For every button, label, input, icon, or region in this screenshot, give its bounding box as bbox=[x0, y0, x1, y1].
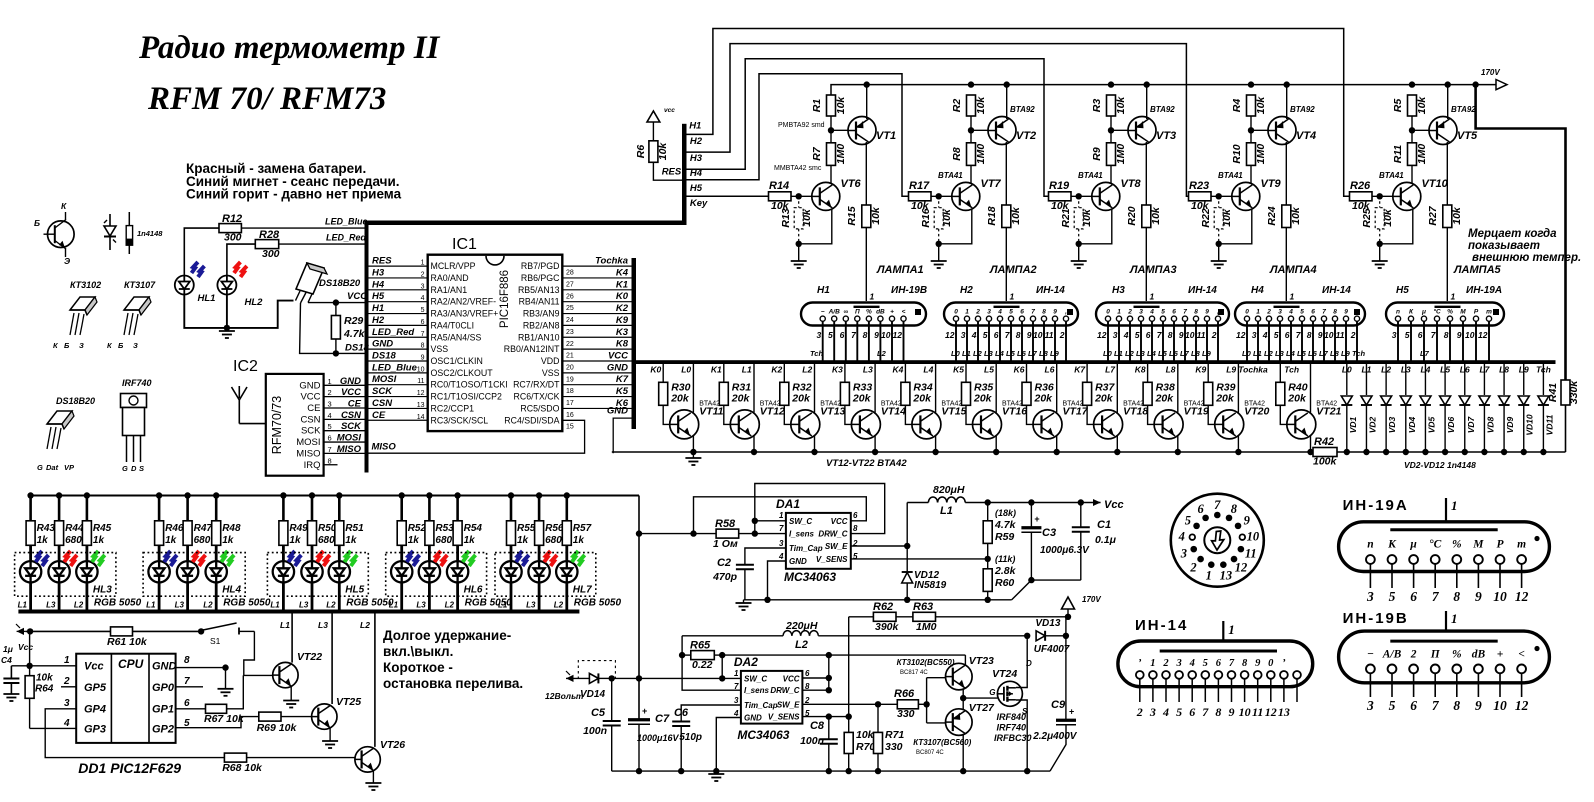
wire IC2 pin 8 IRQ stub bbox=[324, 464, 338, 466]
svg-text:m: m bbox=[1486, 309, 1492, 316]
LED HL7 chip L3 (red) bbox=[528, 545, 557, 609]
text Долгое удержание bbox=[383, 628, 523, 691]
wire GP0 pin7 stub bbox=[176, 686, 203, 688]
svg-text:R43: R43 bbox=[37, 523, 56, 534]
wire GND from bus to transistor rail bbox=[607, 406, 632, 454]
svg-text:L5: L5 bbox=[1297, 349, 1307, 358]
svg-text:L2: L2 bbox=[973, 349, 983, 358]
wire L3 to VT25 bbox=[331, 614, 333, 705]
wire VT22 base bbox=[243, 674, 272, 676]
wire GP5 stub bbox=[61, 686, 76, 688]
nixie tube ЛАМПА1 ИН-19В bbox=[801, 292, 926, 326]
wire R40 to VT21 base bbox=[1280, 405, 1295, 424]
resistor R23 10k bbox=[1189, 180, 1212, 212]
svg-text:VD10: VD10 bbox=[1525, 414, 1535, 436]
transistor VT3 BTA92 (PNP) bbox=[1128, 117, 1176, 145]
wire R11 to VT10 collector bbox=[1411, 165, 1413, 184]
svg-text:+: + bbox=[1069, 707, 1074, 717]
svg-text:MC34063: MC34063 bbox=[784, 570, 836, 584]
LED HL7 chip L2 (green) bbox=[556, 545, 585, 609]
svg-text:K5: K5 bbox=[953, 365, 964, 375]
wire IC1 pin 11 MOSI bbox=[369, 384, 428, 386]
svg-text:3: 3 bbox=[961, 330, 966, 340]
svg-text:R14: R14 bbox=[769, 180, 789, 192]
wire VT23/VT27 emitters to VT24 gate bbox=[960, 688, 997, 710]
svg-text:VT11: VT11 bbox=[699, 406, 723, 418]
svg-text:6: 6 bbox=[1410, 589, 1417, 604]
svg-text:MOSI: MOSI bbox=[296, 437, 320, 448]
svg-text:Key: Key bbox=[690, 198, 708, 209]
svg-text:RES: RES bbox=[372, 256, 392, 267]
wire VT19 emitter to rail bbox=[1175, 436, 1181, 455]
svg-text:7: 7 bbox=[1214, 498, 1221, 512]
wire R5 to junction bbox=[1409, 81, 1415, 142]
resistor R15 10k bbox=[846, 205, 882, 228]
svg-text:10k: 10k bbox=[1416, 96, 1428, 115]
svg-text:G: G bbox=[122, 464, 128, 473]
svg-text:RB7/PGD: RB7/PGD bbox=[521, 261, 560, 271]
svg-text:R12: R12 bbox=[222, 213, 242, 225]
svg-text:6: 6 bbox=[1198, 502, 1205, 516]
diode VD13 UF4007 bbox=[1034, 618, 1070, 655]
svg-text:L1: L1 bbox=[146, 601, 156, 610]
svg-text:4.7k: 4.7k bbox=[994, 519, 1017, 531]
svg-text:R45: R45 bbox=[93, 523, 112, 534]
svg-text:7: 7 bbox=[734, 682, 739, 691]
resistor R57 1k bbox=[562, 492, 591, 546]
svg-text:BTA92: BTA92 bbox=[1451, 105, 1476, 114]
resistor R28 300 bbox=[255, 229, 280, 260]
wire VT5 base bbox=[1412, 129, 1429, 131]
wire IC1 pin 25 K0 bbox=[562, 301, 631, 303]
svg-text:BTA41: BTA41 bbox=[1379, 171, 1404, 180]
resistor R40 20k bbox=[1276, 364, 1308, 405]
svg-text:1: 1 bbox=[965, 309, 969, 316]
svg-text:CE: CE bbox=[372, 410, 386, 421]
resistor R34 20k bbox=[901, 364, 933, 405]
svg-text:ЛАМПА2: ЛАМПА2 bbox=[989, 264, 1037, 276]
svg-text:L2: L2 bbox=[802, 365, 812, 375]
svg-text:DA1: DA1 bbox=[776, 497, 800, 511]
svg-text:RGB 5050: RGB 5050 bbox=[346, 598, 394, 609]
wire DA2 SW_E pin 2 bbox=[802, 701, 897, 707]
resistor R59 4.7k bbox=[983, 499, 1016, 543]
wire VT9 emitter to ground bbox=[1216, 209, 1252, 262]
pin numbers DD1 right bbox=[184, 655, 190, 729]
svg-text:1k: 1k bbox=[345, 535, 357, 546]
svg-text:10: 10 bbox=[1493, 698, 1507, 713]
svg-text:R27: R27 bbox=[1427, 205, 1439, 225]
wire IC1 pin 16 K6 bbox=[562, 407, 631, 409]
svg-text:V_SENS: V_SENS bbox=[768, 713, 800, 722]
svg-text:K3: K3 bbox=[616, 327, 629, 338]
svg-text:H2: H2 bbox=[372, 315, 385, 326]
svg-text:6: 6 bbox=[1418, 330, 1423, 340]
svg-text:5: 5 bbox=[1300, 309, 1304, 316]
wire R23 to VT9 base bbox=[1211, 193, 1232, 199]
svg-text:1 Ом: 1 Ом bbox=[713, 538, 738, 550]
svg-text:VP: VP bbox=[64, 463, 75, 472]
wire I_sens from R65 bbox=[682, 655, 741, 690]
svg-text:VSS: VSS bbox=[542, 368, 560, 378]
wire R36 to VT17 base bbox=[1027, 405, 1042, 424]
svg-text:C5: C5 bbox=[591, 707, 606, 719]
svg-text:GP1: GP1 bbox=[152, 704, 174, 716]
svg-text:10k: 10k bbox=[1221, 208, 1233, 227]
svg-text:8: 8 bbox=[1168, 330, 1173, 340]
svg-text:%: % bbox=[866, 309, 872, 316]
wire VT5 collector to R27 bbox=[1446, 142, 1448, 205]
wire IC1 pin 28 Tochka bbox=[562, 265, 631, 267]
resistor R43 1k bbox=[26, 492, 55, 546]
svg-text:З: З bbox=[133, 341, 138, 350]
svg-text:VCC: VCC bbox=[300, 392, 320, 403]
wire IC1 pin 23 K9 bbox=[562, 324, 631, 326]
svg-text:5: 5 bbox=[983, 330, 988, 340]
svg-text:9: 9 bbox=[1475, 589, 1482, 604]
svg-text:Б: Б bbox=[118, 341, 124, 350]
svg-text:SCK: SCK bbox=[372, 386, 393, 397]
svg-text:K4: K4 bbox=[893, 365, 904, 375]
svg-text:27: 27 bbox=[566, 281, 574, 288]
wire R14 to VT6 base bbox=[791, 193, 812, 199]
svg-text:11: 11 bbox=[1336, 330, 1345, 340]
wire HL1 anode bbox=[184, 228, 219, 276]
svg-text:VD4: VD4 bbox=[1407, 416, 1417, 433]
svg-text:+: + bbox=[1034, 514, 1039, 524]
svg-text:DS18B20: DS18B20 bbox=[319, 278, 361, 289]
diode VD2 bbox=[1361, 364, 1378, 455]
svg-text:20k: 20k bbox=[912, 393, 932, 405]
wire VT21 collector to bus bbox=[1310, 364, 1312, 413]
resistor R53 680 bbox=[425, 492, 454, 546]
wire VT24 drain bbox=[1016, 633, 1030, 688]
svg-text:3: 3 bbox=[1180, 546, 1187, 560]
resistor R29 4.7k bbox=[331, 299, 365, 356]
svg-text:SW_C: SW_C bbox=[789, 517, 812, 526]
svg-text:R29: R29 bbox=[344, 315, 363, 327]
svg-text:Tim_Cap: Tim_Cap bbox=[789, 544, 823, 553]
IC IC2 RFM70/73 bbox=[266, 374, 324, 476]
svg-text:L1: L1 bbox=[1253, 349, 1262, 358]
svg-text:DRW_C: DRW_C bbox=[770, 686, 799, 695]
resistor R25 10k (optional, dashed) bbox=[1361, 196, 1394, 244]
svg-text:R50: R50 bbox=[318, 523, 337, 534]
svg-text:R44: R44 bbox=[65, 523, 84, 534]
svg-text:4: 4 bbox=[1123, 330, 1129, 340]
svg-text:OSC1/CLKIN: OSC1/CLKIN bbox=[431, 356, 483, 366]
svg-text:2.2μ400V: 2.2μ400V bbox=[1032, 731, 1078, 742]
svg-text:GND: GND bbox=[152, 661, 177, 673]
svg-text:2: 2 bbox=[1136, 705, 1143, 719]
svg-text:RB1/AN10: RB1/AN10 bbox=[518, 332, 560, 342]
resistor R44 680 bbox=[55, 492, 84, 546]
svg-text:1: 1 bbox=[328, 377, 332, 386]
svg-text:Tch: Tch bbox=[810, 349, 823, 358]
svg-text:VT2: VT2 bbox=[1016, 130, 1036, 142]
wire VT25 emitter to ground bbox=[322, 728, 338, 749]
transistor VT23 KT3102(BC550) bbox=[897, 655, 994, 690]
svg-text:VT22: VT22 bbox=[297, 651, 322, 663]
wire VT7 emitter to ground bbox=[936, 209, 972, 262]
svg-text:R13: R13 bbox=[780, 208, 792, 227]
svg-text:1k: 1k bbox=[464, 535, 476, 546]
wire DA2 VCC/DRW_C to collector line bbox=[722, 652, 965, 694]
svg-text:C3: C3 bbox=[1042, 527, 1056, 539]
svg-text:DS18B20: DS18B20 bbox=[56, 396, 95, 406]
wire R4 to junction bbox=[1248, 81, 1254, 142]
wire IC1 pin 4 H5 bbox=[369, 301, 428, 303]
resistor R14 10k bbox=[769, 180, 792, 212]
IC DA2 MC34063 bbox=[741, 671, 803, 724]
wire R63 to 170V bbox=[936, 616, 1069, 618]
svg-text:13: 13 bbox=[417, 402, 425, 409]
wires ЛАМПА3 pins to bus bbox=[1097, 321, 1218, 360]
wire VT19 collector to bus bbox=[1177, 364, 1179, 413]
svg-text:20k: 20k bbox=[973, 393, 993, 405]
wire VT12 collector to bus bbox=[753, 364, 755, 413]
svg-text:10: 10 bbox=[1033, 330, 1043, 340]
svg-text:5: 5 bbox=[1389, 698, 1396, 713]
resistor R36 20k bbox=[1022, 364, 1054, 405]
svg-text:20k: 20k bbox=[1215, 393, 1235, 405]
svg-text:K1: K1 bbox=[616, 279, 628, 290]
svg-text:9: 9 bbox=[1318, 330, 1323, 340]
svg-text:1k: 1k bbox=[573, 535, 585, 546]
wire R9 to VT8 collector bbox=[1110, 165, 1112, 184]
svg-text:VT3: VT3 bbox=[1156, 130, 1176, 142]
svg-text:VT24: VT24 bbox=[992, 668, 1017, 680]
resistor R7 1M0 bbox=[811, 143, 847, 166]
svg-text:220μH: 220μH bbox=[785, 620, 818, 632]
svg-text:MCLR/VPP: MCLR/VPP bbox=[431, 261, 476, 271]
svg-text:vcc: vcc bbox=[664, 107, 675, 114]
wire GP3 stub bbox=[30, 727, 77, 729]
svg-text:R5: R5 bbox=[1392, 99, 1404, 113]
svg-text:VT19: VT19 bbox=[1184, 406, 1209, 418]
svg-text:2: 2 bbox=[1189, 560, 1196, 574]
svg-text:L2: L2 bbox=[795, 639, 808, 651]
svg-text:10: 10 bbox=[1185, 330, 1195, 340]
svg-text:Б: Б bbox=[64, 341, 70, 350]
svg-text:R10: R10 bbox=[1231, 144, 1243, 163]
svg-text:3: 3 bbox=[64, 698, 70, 709]
svg-text:P: P bbox=[1474, 309, 1479, 316]
svg-text:K7: K7 bbox=[616, 374, 629, 385]
svg-text:8: 8 bbox=[853, 524, 858, 533]
svg-text:1: 1 bbox=[1228, 622, 1235, 637]
svg-text:VT15: VT15 bbox=[941, 406, 966, 418]
wire R24 to lamp pin 1 bbox=[1285, 228, 1287, 302]
svg-text:R2: R2 bbox=[951, 99, 963, 113]
svg-text:A/B: A/B bbox=[828, 309, 841, 316]
svg-text:14: 14 bbox=[417, 414, 425, 421]
svg-text:ЛАМПА5: ЛАМПА5 bbox=[1453, 264, 1502, 276]
svg-text:C4: C4 bbox=[1, 655, 12, 665]
svg-text:H1: H1 bbox=[689, 121, 701, 132]
LED HL3 chip L3 (red) bbox=[48, 545, 77, 609]
svg-text:10k: 10k bbox=[856, 729, 875, 741]
wire R62 feedback to R70 bbox=[848, 617, 850, 733]
svg-text:H5: H5 bbox=[690, 183, 703, 194]
svg-text:18: 18 bbox=[566, 388, 574, 395]
svg-text:4: 4 bbox=[1262, 330, 1268, 340]
svg-text:11: 11 bbox=[1045, 330, 1054, 340]
svg-text:3: 3 bbox=[987, 309, 991, 316]
svg-text:H4: H4 bbox=[372, 279, 385, 290]
transistor VT15 BTA42 (NPN) bbox=[912, 401, 967, 439]
svg-text:VSS: VSS bbox=[431, 344, 449, 354]
svg-text:VT27: VT27 bbox=[969, 702, 995, 714]
svg-text:L9: L9 bbox=[1050, 349, 1060, 358]
svg-text:+: + bbox=[642, 706, 647, 716]
wire IC1 pin 2 H3 bbox=[369, 277, 428, 279]
wire GP2 pin5 to R69 bbox=[176, 717, 259, 728]
svg-text:G: G bbox=[37, 463, 43, 472]
LED HL6 chip L3 (red) bbox=[419, 545, 448, 609]
svg-text:M: M bbox=[1472, 539, 1484, 551]
svg-text:V_SENS: V_SENS bbox=[816, 555, 848, 564]
wire IC1 pin 24 K2 bbox=[562, 313, 631, 315]
wire VT5 emitter to 170V rail bbox=[1445, 81, 1451, 119]
svg-text:G: G bbox=[989, 688, 995, 697]
svg-text:9: 9 bbox=[1179, 330, 1184, 340]
wire VT18 collector to bus bbox=[1116, 364, 1118, 413]
svg-text:R66: R66 bbox=[894, 688, 915, 700]
svg-text:10k: 10k bbox=[657, 142, 669, 161]
svg-text:7: 7 bbox=[1202, 705, 1209, 719]
svg-text:6: 6 bbox=[1172, 309, 1176, 316]
svg-text:HL3: HL3 bbox=[93, 585, 112, 596]
svg-text:1M0: 1M0 bbox=[835, 144, 847, 165]
svg-text:12: 12 bbox=[1478, 330, 1488, 340]
svg-text:3: 3 bbox=[1252, 330, 1257, 340]
svg-text:°C: °C bbox=[1433, 308, 1441, 316]
svg-text:L2: L2 bbox=[554, 601, 564, 610]
svg-text:6: 6 bbox=[994, 330, 999, 340]
bus vertical left of IC1 bbox=[365, 223, 369, 473]
svg-text:8: 8 bbox=[1453, 589, 1460, 604]
svg-text:RC7/RX/DT: RC7/RX/DT bbox=[513, 380, 560, 390]
LED HL1 blue bbox=[175, 262, 216, 304]
svg-text:R4: R4 bbox=[1231, 99, 1243, 113]
resistor R42 100k bbox=[1313, 436, 1338, 468]
svg-text:13: 13 bbox=[1278, 705, 1290, 719]
resistor R21 10k (optional, dashed) bbox=[1060, 196, 1093, 244]
inductor L2 220uH bbox=[682, 620, 1027, 651]
svg-text:8: 8 bbox=[1194, 309, 1198, 316]
svg-text:MISO: MISO bbox=[337, 444, 362, 455]
svg-text:1: 1 bbox=[1117, 309, 1121, 316]
IC DA1 MC34063 bbox=[786, 513, 851, 569]
LED HL2 red bbox=[217, 262, 263, 308]
diode VD11 bbox=[1538, 364, 1555, 455]
svg-text:8: 8 bbox=[328, 456, 332, 465]
svg-text:20k: 20k bbox=[1034, 393, 1054, 405]
svg-text:5: 5 bbox=[1176, 705, 1182, 719]
transistor VT2 BTA92 (PNP) bbox=[988, 117, 1036, 145]
svg-text:VT17: VT17 bbox=[1063, 406, 1089, 418]
nixie tube ЛАМПА5 ИН-19А bbox=[1386, 292, 1504, 326]
svg-text:3: 3 bbox=[1139, 309, 1143, 316]
svg-text:IN5819: IN5819 bbox=[914, 580, 947, 591]
svg-text:12: 12 bbox=[1515, 698, 1529, 713]
resistor R64 10k bbox=[25, 631, 54, 728]
svg-text:1M0: 1M0 bbox=[975, 144, 987, 165]
svg-text:L2: L2 bbox=[326, 601, 336, 610]
svg-text:VD6: VD6 bbox=[1446, 416, 1456, 433]
svg-text:10k: 10k bbox=[1010, 206, 1022, 225]
svg-text:L7: L7 bbox=[1180, 349, 1190, 358]
svg-text:8: 8 bbox=[421, 343, 425, 350]
svg-text:4: 4 bbox=[1162, 705, 1169, 719]
wire R38 to VT19 base bbox=[1148, 405, 1163, 424]
svg-text:VT7: VT7 bbox=[981, 178, 1002, 190]
svg-text:DA2: DA2 bbox=[734, 655, 758, 669]
svg-text:170V: 170V bbox=[1082, 595, 1101, 604]
svg-text:K0: K0 bbox=[616, 291, 629, 302]
svg-text:9: 9 bbox=[421, 354, 425, 361]
svg-text:10k: 10k bbox=[1081, 208, 1093, 227]
svg-text:R25: R25 bbox=[1361, 208, 1373, 227]
svg-text:K8: K8 bbox=[616, 339, 629, 350]
wire R15 to lamp pin 1 bbox=[865, 228, 867, 302]
svg-text:GND: GND bbox=[340, 376, 361, 387]
svg-text:VD2: VD2 bbox=[1367, 416, 1377, 433]
ground cell 2 bbox=[931, 260, 947, 262]
svg-text:330: 330 bbox=[897, 708, 915, 720]
svg-text:Tim_Cap: Tim_Cap bbox=[744, 701, 778, 710]
svg-text:Tochka: Tochka bbox=[1238, 365, 1268, 375]
RGB LED module HL4 outline bbox=[143, 553, 245, 597]
transistor VT21 BTA42 (NPN) bbox=[1287, 401, 1342, 439]
bus horizontal K/L lines bbox=[634, 360, 1556, 364]
transistor VT19 BTA42 (NPN) bbox=[1154, 401, 1209, 439]
svg-text:H3: H3 bbox=[372, 267, 385, 278]
capacitor C6 510p bbox=[672, 705, 741, 771]
ground cell 1 bbox=[791, 260, 807, 262]
svg-text:DRW_C: DRW_C bbox=[818, 530, 847, 539]
power VCC symbol bbox=[647, 107, 675, 141]
capacitor C1 0.1u bbox=[1072, 503, 1117, 581]
svg-text:ИН-19А: ИН-19А bbox=[1466, 285, 1502, 296]
svg-text:RB5/AN13: RB5/AN13 bbox=[518, 285, 560, 295]
svg-text:K7: K7 bbox=[1074, 365, 1086, 375]
svg-text:R22: R22 bbox=[1200, 208, 1212, 227]
svg-text:SW_C: SW_C bbox=[744, 674, 767, 683]
wire VT6 emitter to ground bbox=[796, 209, 832, 262]
LED HL4 chip L2 (green) bbox=[206, 545, 235, 609]
resistor R63 1M0 bbox=[896, 601, 937, 633]
svg-text:8: 8 bbox=[1453, 698, 1460, 713]
wire RES from R6 to bus bbox=[653, 162, 682, 180]
wire VT20 emitter to rail bbox=[1235, 436, 1241, 455]
wire IC2 pin 1 GND bbox=[324, 384, 366, 386]
wire IC1 pin 14 CE bbox=[369, 419, 428, 421]
transistor VT4 BTA92 (PNP) bbox=[1268, 117, 1316, 145]
wires ЛАМПА4 pins to bus bbox=[1236, 321, 1357, 360]
svg-text:CE: CE bbox=[307, 403, 320, 414]
svg-text:R56: R56 bbox=[545, 523, 564, 534]
transistor symbol legend (K/B/E) bbox=[34, 201, 74, 266]
wire GP4 to R68 (long bottom wire) bbox=[45, 709, 224, 758]
transistor IRF740 package bbox=[121, 378, 152, 473]
transistor VT12 BTA42 (NPN) bbox=[730, 401, 785, 439]
wire IC1 pin 21 K8 bbox=[562, 348, 631, 350]
svg-text:ИН-14: ИН-14 bbox=[1036, 285, 1065, 296]
svg-text:R15: R15 bbox=[846, 206, 858, 225]
svg-text:6: 6 bbox=[1189, 705, 1195, 719]
